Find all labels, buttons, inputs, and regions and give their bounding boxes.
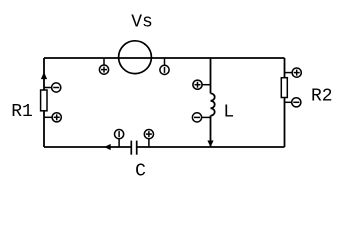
resistor R1 <box>41 90 47 111</box>
resistor R2 <box>281 78 287 98</box>
current arrow up on left wire <box>41 72 47 79</box>
svg-text:Vs: Vs <box>131 12 153 32</box>
polarity marker rotated minus (capacitor left) <box>115 130 124 148</box>
polarity marker minus (inductor L bottom) <box>192 113 210 122</box>
polarity marker plus (top wire, left of Vs) <box>99 58 108 74</box>
svg-text:C: C <box>135 161 146 181</box>
polarity marker plus (capacitor right) <box>144 130 153 148</box>
svg-text:L: L <box>223 103 234 123</box>
polarity marker plus (R2 top) <box>285 68 302 77</box>
wire right <box>284 58 286 147</box>
polarity marker plus (R1 bottom) <box>44 113 61 122</box>
wire bottom right segment <box>137 146 285 148</box>
svg-text:R1: R1 <box>11 102 33 122</box>
inductor L <box>211 93 215 115</box>
wire middle branch lower <box>210 116 212 147</box>
voltage source Vs <box>119 41 152 74</box>
polarity marker plus (inductor L top) <box>193 80 211 89</box>
svg-text:R2: R2 <box>311 86 333 106</box>
wire bottom left segment <box>44 146 131 148</box>
wire top <box>44 57 285 59</box>
polarity marker minus (R2 bottom) <box>285 98 301 107</box>
wire left <box>43 58 45 147</box>
current arrow down on middle branch <box>207 141 213 148</box>
current arrow left on bottom wire <box>104 144 111 150</box>
capacitor C plates <box>131 141 136 155</box>
wire middle branch upper <box>210 58 212 93</box>
polarity marker minus (R1 top) <box>44 83 61 92</box>
polarity marker rotated minus (top wire, right of Vs) <box>160 58 169 75</box>
